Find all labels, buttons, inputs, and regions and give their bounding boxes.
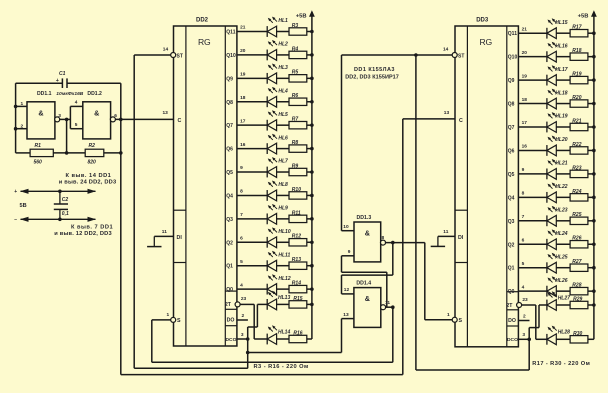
svg-text:HL17: HL17 <box>555 67 567 73</box>
wire <box>67 82 121 84</box>
wire <box>307 338 312 340</box>
svg-text:9: 9 <box>522 167 525 173</box>
svg-text:20: 20 <box>522 50 528 56</box>
junction <box>310 30 314 34</box>
svg-text:ST: ST <box>458 54 464 60</box>
svg-text:и выв. 12 DD2, DD3: и выв. 12 DD2, DD3 <box>54 231 112 237</box>
svg-text:HL2: HL2 <box>278 42 288 48</box>
junction <box>310 77 314 81</box>
svg-text:14: 14 <box>443 47 449 53</box>
resistor R2 <box>85 143 104 165</box>
wire pin10 bus <box>341 55 343 231</box>
wire <box>277 338 289 340</box>
wire <box>341 275 343 294</box>
svg-text:5: 5 <box>75 122 78 128</box>
svg-text:HL16: HL16 <box>555 43 567 49</box>
svg-text:Q10: Q10 <box>226 53 236 59</box>
resistor R14 <box>289 285 307 292</box>
wire <box>588 290 594 292</box>
wire <box>237 171 267 173</box>
wire <box>70 105 82 107</box>
resistor R22 <box>570 147 588 154</box>
svg-text:4: 4 <box>75 100 78 106</box>
svg-text:DD1.2: DD1.2 <box>87 91 102 97</box>
junction <box>310 123 314 127</box>
wire <box>518 103 547 105</box>
svg-text:HL26: HL26 <box>555 278 567 284</box>
LED HL20 <box>547 136 557 156</box>
wire <box>277 77 289 79</box>
svg-text:&: & <box>365 294 370 303</box>
junction <box>592 78 596 82</box>
resistor R4 <box>289 51 307 58</box>
svg-text:Q4: Q4 <box>508 195 515 201</box>
wire <box>277 148 289 150</box>
resistor R10 <box>289 192 307 199</box>
svg-text:21: 21 <box>240 25 246 31</box>
svg-text:20: 20 <box>240 48 246 54</box>
svg-text:Q0: Q0 <box>226 287 233 293</box>
wire <box>342 230 355 232</box>
svg-text:DD3: DD3 <box>476 18 489 24</box>
junction <box>592 242 596 246</box>
LED HL26 <box>547 276 557 296</box>
svg-text:1: 1 <box>167 312 170 318</box>
wire <box>237 101 267 103</box>
LED HL10 <box>267 227 277 247</box>
svg-text:2: 2 <box>523 313 526 319</box>
svg-text:13: 13 <box>343 312 349 318</box>
svg-text:+5В: +5В <box>578 14 589 20</box>
wire <box>518 79 547 81</box>
LED HL1 <box>267 17 277 37</box>
wire <box>307 54 312 56</box>
svg-text:DD1.1: DD1.1 <box>37 91 52 97</box>
svg-text:Q8: Q8 <box>226 100 233 106</box>
svg-text:6: 6 <box>240 235 243 241</box>
svg-text:560: 560 <box>34 160 43 166</box>
wire <box>15 83 17 153</box>
pin 6 bubble <box>110 117 115 122</box>
junction <box>592 303 596 307</box>
LED HL27 <box>547 291 557 310</box>
svg-text:C1: C1 <box>59 71 66 77</box>
svg-text:18: 18 <box>522 97 528 103</box>
svg-text:HL12: HL12 <box>278 276 290 282</box>
junction <box>592 196 596 200</box>
pin 23 bubble 2T DD3 <box>517 303 522 308</box>
wire <box>556 267 570 269</box>
wire S DD3 drop <box>424 243 426 320</box>
wire <box>386 272 388 307</box>
svg-text:Q0: Q0 <box>508 289 515 295</box>
wire <box>438 235 455 237</box>
svg-text:DCO: DCO <box>226 337 237 343</box>
svg-text:DCO: DCO <box>507 337 518 343</box>
wire <box>529 327 539 329</box>
wire <box>342 293 354 295</box>
wire <box>277 101 289 103</box>
LED HL24 <box>547 229 557 249</box>
svg-text:HL7: HL7 <box>278 159 288 165</box>
svg-text:RG: RG <box>480 37 493 47</box>
wire <box>588 56 594 58</box>
wire <box>277 171 289 173</box>
svg-text:18: 18 <box>240 95 246 101</box>
svg-text:14: 14 <box>163 47 169 53</box>
LED HL4 <box>267 87 277 107</box>
junction <box>310 287 314 291</box>
svg-text:+: + <box>14 189 17 195</box>
wire <box>307 303 312 305</box>
svg-text:HL22: HL22 <box>555 184 567 190</box>
junction <box>592 31 596 35</box>
ground DD2 DI <box>147 236 161 246</box>
junction <box>310 217 314 221</box>
LED HL17 <box>547 65 557 85</box>
svg-text:DI: DI <box>177 235 183 241</box>
junction <box>119 151 123 155</box>
svg-text:Q2: Q2 <box>226 240 233 246</box>
wire <box>277 31 289 33</box>
svg-text:R3 - R16 - 220 Ом: R3 - R16 - 220 Ом <box>254 364 309 370</box>
LED HL2 <box>267 40 277 60</box>
svg-text:HL9: HL9 <box>278 206 288 212</box>
wire <box>416 369 529 371</box>
svg-text:Q1: Q1 <box>508 266 515 272</box>
wire clock bottom <box>121 374 403 376</box>
junction <box>65 118 69 122</box>
power line 0V <box>14 217 96 223</box>
svg-text:Q8: Q8 <box>508 102 515 108</box>
wire <box>518 32 547 34</box>
svg-text:Q6: Q6 <box>226 147 233 153</box>
wire <box>342 54 453 56</box>
svg-text:23: 23 <box>522 297 528 303</box>
wire <box>588 126 594 128</box>
+5V arrow <box>309 10 315 17</box>
wire <box>16 152 31 154</box>
svg-text:10мкФх16В: 10мкФх16В <box>56 91 84 97</box>
junction <box>310 194 314 198</box>
svg-text:16: 16 <box>522 144 528 150</box>
svg-text:5В: 5В <box>20 203 27 209</box>
svg-text:и выв. 24 DD2, DD3: и выв. 24 DD2, DD3 <box>59 180 117 186</box>
junction <box>592 219 596 223</box>
wire <box>556 79 570 81</box>
svg-text:2: 2 <box>242 313 245 319</box>
LED HL21 <box>547 159 557 179</box>
svg-text:HL11: HL11 <box>278 252 290 258</box>
wire <box>152 361 393 363</box>
wire <box>237 194 267 196</box>
svg-text:5: 5 <box>522 261 525 267</box>
svg-text:2T: 2T <box>506 303 513 309</box>
svg-text:&: & <box>365 229 370 238</box>
capacitor C2 <box>54 191 69 219</box>
svg-text:820: 820 <box>88 160 97 166</box>
svg-text:Q1: Q1 <box>226 264 233 270</box>
wire HL27 feed <box>539 304 547 306</box>
svg-text:Q5: Q5 <box>508 172 515 178</box>
wire <box>588 149 594 151</box>
svg-text:8: 8 <box>382 235 385 241</box>
wire <box>307 101 312 103</box>
wire <box>556 304 570 306</box>
wire <box>588 196 594 198</box>
svg-text:19: 19 <box>240 72 246 78</box>
svg-text:3: 3 <box>241 332 244 338</box>
pin 23 bubble 2T DD2 <box>235 302 240 307</box>
wire <box>256 304 258 327</box>
resistor R9 <box>289 168 307 175</box>
wire DCO stub <box>518 338 529 340</box>
wire <box>556 103 570 105</box>
svg-text:HL20: HL20 <box>555 137 567 143</box>
wire <box>253 304 255 339</box>
op-amp U_DD1.1 <box>27 91 55 139</box>
wire <box>556 32 570 34</box>
pin 1 bubble S DD3 <box>452 317 457 322</box>
IC DD3 body <box>455 26 518 347</box>
wire <box>277 241 289 243</box>
wire <box>518 196 547 198</box>
wire <box>342 318 354 320</box>
wire <box>556 243 570 245</box>
svg-text:DD1 К155ЛА3: DD1 К155ЛА3 <box>354 67 395 73</box>
junction <box>391 305 395 309</box>
svg-text:DD1.4: DD1.4 <box>356 281 371 287</box>
junction <box>592 289 596 293</box>
svg-text:HL1: HL1 <box>278 18 288 24</box>
svg-text:11: 11 <box>385 300 390 306</box>
junction <box>391 241 395 245</box>
wire <box>556 56 570 58</box>
wire <box>16 105 27 107</box>
svg-text:21: 21 <box>522 26 528 32</box>
svg-text:2: 2 <box>21 123 24 129</box>
wire <box>307 148 312 150</box>
wire <box>16 128 27 130</box>
+5V arrow <box>591 10 597 17</box>
wire <box>556 338 570 340</box>
resistor R28 <box>570 287 588 294</box>
svg-text:7: 7 <box>522 214 525 220</box>
wire <box>277 194 289 196</box>
svg-text:4: 4 <box>240 282 243 288</box>
pin 14 bubble ST DD3 <box>452 53 457 58</box>
resistor R1 <box>30 143 53 165</box>
LED HL15 <box>547 18 557 38</box>
svg-text:HL6: HL6 <box>278 135 288 141</box>
resistor R15 <box>289 301 307 308</box>
wire <box>307 31 312 33</box>
svg-text:2T: 2T <box>225 302 232 308</box>
wire DO stub <box>237 319 248 321</box>
svg-text:HL27: HL27 <box>558 295 570 301</box>
LED HL23 <box>547 206 557 226</box>
svg-text:Q5: Q5 <box>226 170 233 176</box>
svg-text:Q10: Q10 <box>508 55 518 61</box>
wire <box>16 82 63 84</box>
power line +5V <box>14 189 96 195</box>
wire <box>556 149 570 151</box>
svg-text:HL28: HL28 <box>558 330 570 336</box>
junction <box>592 172 596 176</box>
IC DD2 body <box>174 26 237 346</box>
pin 11 bubble <box>381 305 386 310</box>
resistor R26 <box>570 241 588 248</box>
wire <box>518 243 547 245</box>
wire <box>392 243 394 276</box>
wire <box>588 243 594 245</box>
svg-text:Q3: Q3 <box>508 219 515 225</box>
LED HL19 <box>547 112 557 132</box>
LED HL16 <box>547 42 557 62</box>
wire <box>307 171 312 173</box>
svg-text:HL5: HL5 <box>278 112 288 118</box>
LED HL13 <box>267 291 277 310</box>
resistor R3 <box>289 28 307 35</box>
svg-text:1: 1 <box>447 312 450 318</box>
svg-text:Q11: Q11 <box>226 30 235 36</box>
wire <box>588 103 594 105</box>
svg-text:6: 6 <box>522 237 525 243</box>
wire <box>588 338 594 340</box>
wire <box>556 290 570 292</box>
LED HL12 <box>267 274 277 294</box>
wire <box>588 79 594 81</box>
op-amp U_DD1.3 <box>354 215 381 262</box>
wire <box>277 303 289 305</box>
wire <box>518 173 547 175</box>
svg-text:DO: DO <box>227 318 235 324</box>
wire <box>115 118 173 120</box>
pin 1 bubble S DD2 <box>171 317 176 322</box>
svg-text:12: 12 <box>344 287 350 293</box>
junction <box>527 338 531 342</box>
wire <box>588 173 594 175</box>
junction <box>246 337 250 341</box>
wire <box>402 119 404 375</box>
wire <box>535 305 537 339</box>
resistor R17 <box>570 30 588 37</box>
svg-text:C2: C2 <box>62 197 69 203</box>
svg-text:Q9: Q9 <box>508 78 515 84</box>
wire <box>518 149 547 151</box>
junction <box>310 170 314 174</box>
wire <box>536 338 547 340</box>
junction <box>58 218 62 222</box>
wire <box>237 54 267 56</box>
svg-text:3: 3 <box>58 113 61 119</box>
wire <box>277 54 289 56</box>
LED HL28 <box>547 326 557 345</box>
junction <box>310 303 314 307</box>
op-amp U_DD1.2 <box>83 91 111 139</box>
wire <box>403 118 455 120</box>
svg-text:C: C <box>178 118 182 124</box>
LED HL5 <box>267 110 277 130</box>
wire <box>53 152 85 154</box>
wire <box>237 241 267 243</box>
junction <box>119 118 123 122</box>
wire <box>66 119 68 152</box>
wire <box>588 267 594 269</box>
svg-text:Q7: Q7 <box>226 123 233 129</box>
svg-text:23: 23 <box>241 296 247 302</box>
wire clock bus <box>120 83 122 374</box>
wire <box>151 320 153 362</box>
resistor R5 <box>289 75 307 82</box>
junction <box>592 125 596 129</box>
junction <box>310 100 314 104</box>
LED HL3 <box>267 63 277 83</box>
wire <box>307 77 312 79</box>
wire <box>518 126 547 128</box>
wire <box>528 328 530 340</box>
wire <box>518 290 547 292</box>
wire DCO drop <box>247 339 249 368</box>
wire 2T out <box>522 304 536 306</box>
svg-text:C: C <box>459 118 463 124</box>
wire <box>556 220 570 222</box>
wire <box>277 265 289 267</box>
wire <box>307 288 312 290</box>
svg-text:S: S <box>459 318 463 324</box>
svg-text:HL21: HL21 <box>555 161 567 167</box>
wire <box>104 152 121 154</box>
wire <box>385 306 392 308</box>
wire <box>307 194 312 196</box>
wire <box>556 126 570 128</box>
svg-text:HL13: HL13 <box>278 295 290 301</box>
svg-text:R1: R1 <box>35 143 42 149</box>
svg-text:Q4: Q4 <box>226 193 233 199</box>
+5V rail <box>311 12 313 339</box>
svg-text:1: 1 <box>21 101 24 107</box>
wire <box>248 326 258 328</box>
wire <box>538 305 540 328</box>
wire <box>392 307 394 362</box>
svg-text:HL18: HL18 <box>555 90 567 96</box>
+5V rail <box>593 12 595 339</box>
wire <box>518 267 547 269</box>
svg-text:Q6: Q6 <box>508 148 515 154</box>
wire <box>247 327 249 339</box>
svg-text:13: 13 <box>444 110 450 116</box>
wire DCO drop <box>528 339 530 370</box>
pin 14 bubble ST DD2 <box>171 53 176 58</box>
svg-text:HL25: HL25 <box>555 254 567 260</box>
svg-text:8: 8 <box>522 191 525 197</box>
wire <box>307 218 312 220</box>
resistor R12 <box>289 239 307 246</box>
svg-text:17: 17 <box>240 118 246 124</box>
svg-text:5: 5 <box>240 259 243 265</box>
junction <box>592 149 596 153</box>
wire <box>588 220 594 222</box>
junction <box>246 351 250 355</box>
wire <box>248 352 342 354</box>
svg-text:Q3: Q3 <box>226 217 233 223</box>
svg-text:S: S <box>177 318 181 324</box>
LED HL22 <box>547 182 557 202</box>
svg-text:6: 6 <box>114 113 117 119</box>
resistor R11 <box>289 215 307 222</box>
svg-text:HL14: HL14 <box>278 329 290 335</box>
resistor R13 <box>289 262 307 269</box>
